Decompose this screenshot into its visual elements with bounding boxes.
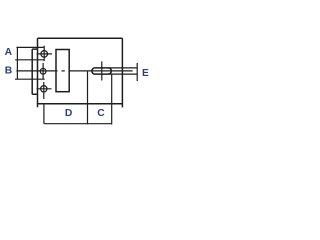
dimension C right extension [111, 74, 113, 124]
svg-text:B: B [5, 66, 12, 77]
bottom dimension line [44, 123, 112, 125]
tick A top [16, 46, 44, 48]
hole 1 [41, 51, 48, 58]
hole 2 crosshair [42, 63, 44, 79]
left dimension bracket [16, 47, 18, 79]
hole 2 [40, 68, 46, 74]
svg-text:C: C [97, 108, 105, 119]
obround slot [92, 68, 112, 74]
svg-text:E: E [142, 68, 149, 79]
tick B bottom [15, 78, 45, 80]
dimension D/C separator extension [87, 71, 89, 124]
inner slot rectangle [56, 50, 69, 92]
dimension D extension line [43, 104, 45, 124]
hole 1 crosshair [37, 46, 52, 61]
tick A/B middle [15, 59, 44, 61]
left tab [32, 49, 37, 94]
hole 3 [41, 86, 47, 92]
centerline [16, 70, 132, 72]
main body rectangle [38, 38, 123, 107]
dimension E extension lines [108, 68, 137, 74]
hole 3 crosshair [37, 82, 52, 99]
svg-text:A: A [5, 47, 13, 58]
dimension E line [136, 63, 138, 81]
obround crosshair [101, 61, 103, 80]
svg-text:D: D [65, 108, 72, 119]
